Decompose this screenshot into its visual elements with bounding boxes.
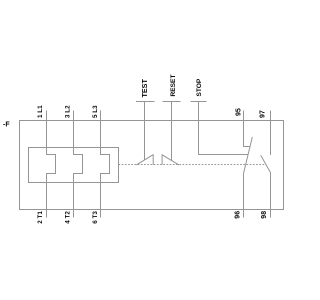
svg-text:STOP: STOP — [196, 78, 203, 96]
overload relay body outline -F — [20, 121, 284, 210]
svg-text:6 T3: 6 T3 — [92, 211, 99, 224]
TEST button actuator bar — [136, 101, 155, 103]
svg-text:2 T1: 2 T1 — [37, 211, 44, 224]
TEST cam triangle — [136, 155, 153, 165]
wire L1 with heater meander (1/L1 to 2/T1) — [47, 111, 56, 218]
svg-text:RESET: RESET — [170, 75, 177, 97]
svg-text:98: 98 — [261, 211, 268, 219]
svg-text:3 L2: 3 L2 — [65, 105, 72, 118]
wire terminal 95 to NC fixed contact — [244, 111, 251, 147]
svg-text:96: 96 — [235, 211, 242, 219]
NC contact movable blade (95-96) — [244, 137, 253, 174]
wire NO contact to terminal 98 — [270, 173, 272, 218]
RESET button actuator bar — [163, 101, 181, 103]
svg-text:1 L1: 1 L1 — [37, 105, 44, 118]
svg-text:TEST: TEST — [140, 79, 149, 98]
svg-text:95: 95 — [236, 108, 243, 116]
svg-text:5 L3: 5 L3 — [92, 105, 99, 118]
mechanical trip linkage (dashed) — [119, 164, 267, 166]
svg-text:4 T2: 4 T2 — [65, 211, 72, 224]
STOP button actuator bar — [191, 101, 207, 103]
wire NC contact to terminal 96 — [243, 174, 245, 218]
wire L2 with heater meander (3/L2 to 4/T2) — [74, 111, 83, 218]
svg-text:97: 97 — [260, 110, 267, 118]
TEST plunger wire — [144, 102, 146, 160]
STOP plunger wire (down then right to NC contact blade) — [199, 102, 249, 155]
RESET plunger wire — [171, 102, 173, 161]
svg-text:-F: -F — [3, 122, 10, 129]
RESET cam triangle — [162, 155, 179, 165]
wire terminal 97 to NO fixed contact — [270, 111, 272, 156]
NO contact movable blade (97-98) — [261, 155, 271, 172]
thermal heater block (bimetal element box) — [29, 148, 119, 183]
wire L3 with heater meander (5/L3 to 6/T3) — [101, 111, 110, 218]
